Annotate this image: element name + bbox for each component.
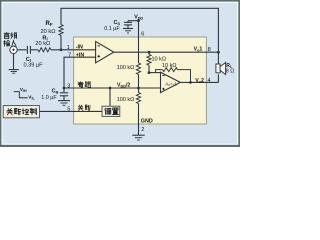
speaker RL + wires — [217, 52, 219, 64]
ground (CS) — [123, 28, 133, 30]
IC block (yellow) — [74, 37, 207, 124]
wire: shutdown to pin5 and bias — [40, 110, 103, 112]
svg-text:6: 6 — [141, 32, 144, 38]
feedback 10k of amp2 — [156, 70, 163, 73]
svg-text:100 kΩ: 100 kΩ — [117, 65, 135, 71]
audio input jack — [10, 46, 17, 53]
wire: bypass rail VDD/2 — [64, 87, 161, 89]
svg-text:20 kΩ: 20 kΩ — [35, 41, 50, 47]
svg-text:5: 5 — [67, 106, 70, 112]
svg-text:8 Ω: 8 Ω — [226, 68, 235, 74]
svg-text:1.0 µF: 1.0 µF — [41, 95, 57, 101]
svg-text:4: 4 — [208, 78, 211, 84]
capacitor CB — [63, 88, 65, 92]
bias box 偏置 — [109, 88, 111, 106]
divider chain from pin6: 100k + 100k — [138, 37, 140, 63]
svg-text:3: 3 — [67, 83, 70, 89]
ground (pin2) — [132, 134, 144, 136]
svg-text:-IN: -IN — [76, 45, 83, 51]
svg-text:20 kΩ: 20 kΩ — [40, 29, 55, 35]
VIH / VIL level annotation — [14, 92, 28, 98]
capacitor CS — [128, 20, 139, 22]
svg-text:7: 7 — [68, 53, 71, 59]
svg-text:RF: RF — [45, 21, 52, 27]
svg-text:CB: CB — [52, 89, 59, 95]
wire: input row — [17, 49, 26, 51]
svg-text:+IN: +IN — [76, 53, 85, 59]
node: -IN junction — [60, 48, 63, 51]
label: audio input — [4, 32, 10, 38]
shutdown control box — [3, 106, 39, 118]
capacitor CI — [26, 46, 28, 54]
svg-text:2: 2 — [141, 127, 144, 133]
svg-text:0.1 µF: 0.1 µF — [104, 26, 120, 32]
ground (CB) — [58, 100, 70, 102]
wire: amp2 output Vo2 — [180, 81, 218, 83]
wire + resistor RI — [31, 49, 38, 51]
svg-text:100 kΩ: 100 kΩ — [117, 97, 135, 103]
op-amp U1 — [96, 41, 114, 62]
wire: amp1 output to Vo1 — [114, 51, 219, 53]
background panel — [0, 0, 240, 147]
svg-text:GND: GND — [141, 118, 153, 124]
ground (jack) — [13, 54, 15, 70]
resistor RF — [58, 25, 64, 36]
wire: +IN to bypass rail — [64, 57, 96, 88]
svg-text:1: 1 — [67, 45, 70, 51]
amp2 input chain 10k — [148, 51, 151, 54]
svg-text:8: 8 — [208, 47, 211, 53]
svg-text:10 kΩ: 10 kΩ — [152, 56, 167, 62]
wire: feedback top — [61, 8, 218, 52]
op-amp U2 (Av=-1) — [161, 72, 181, 92]
svg-text:10 kΩ: 10 kΩ — [162, 63, 177, 69]
svg-text:0.39 µF: 0.39 µF — [23, 62, 43, 68]
